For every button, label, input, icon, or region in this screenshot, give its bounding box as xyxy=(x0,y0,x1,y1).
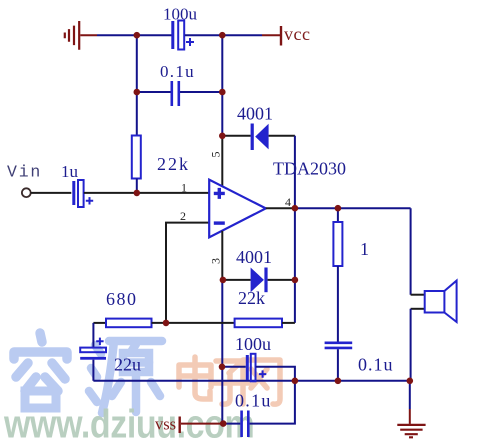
svg-text:0.1u: 0.1u xyxy=(358,355,394,375)
capacitor C3 1u xyxy=(61,162,93,207)
wire R1 bottom to input node xyxy=(136,179,138,193)
wire 680 to node / node to R3 xyxy=(152,322,235,324)
pin number 5 xyxy=(208,152,222,158)
wire GND1 stub (red) xyxy=(80,34,97,36)
svg-text:TDA2030: TDA2030 xyxy=(273,159,346,179)
resistor R1 22k xyxy=(132,136,190,179)
junction top-left xyxy=(134,32,141,39)
watermark 电子网 (pink CJK) xyxy=(179,357,280,404)
wire rail to GND2 xyxy=(409,381,411,409)
svg-text:2: 2 xyxy=(180,209,186,223)
wire vss stub (red) xyxy=(181,423,223,425)
svg-text:0.1u: 0.1u xyxy=(160,62,195,81)
svg-text:3: 3 xyxy=(208,258,222,264)
wire speaker bottom stub xyxy=(411,308,425,310)
wire 680 left stub xyxy=(93,322,106,324)
ground GND2 xyxy=(397,425,425,437)
wire C5 left (x=222 to cap) xyxy=(222,366,246,368)
svg-text:100u: 100u xyxy=(163,5,198,24)
wire pin5 (D1 node to op-amp top) xyxy=(221,136,223,187)
junction rail x410 xyxy=(407,378,414,385)
junction D1 node xyxy=(219,133,226,140)
wire R4 bottom to C7 xyxy=(337,266,339,342)
svg-text:1u: 1u xyxy=(61,162,79,181)
wire pin2 xyxy=(166,223,209,323)
junction vss node xyxy=(220,420,227,427)
ground GND1 top-left xyxy=(65,21,79,50)
label TDA2030 xyxy=(273,159,346,179)
wire R3 right to x=295 xyxy=(282,322,295,324)
capacitor C1 100u xyxy=(163,5,198,50)
junction output node xyxy=(292,205,299,212)
wire output (apex to node 4) xyxy=(266,207,295,209)
terminal input circle xyxy=(22,188,31,197)
resistor R4 1 xyxy=(333,222,369,266)
svg-text:vcc: vcc xyxy=(284,24,310,44)
junction feedback node xyxy=(163,320,170,327)
wire output node to R4/speaker xyxy=(295,207,411,209)
power port VCC xyxy=(280,24,311,46)
wire bottom rail xyxy=(93,380,409,382)
wire D1 right to x=295 xyxy=(269,135,295,137)
wire speaker bottom to rail xyxy=(410,309,412,381)
wire D2 left xyxy=(223,279,251,281)
pin number 2 xyxy=(180,209,186,223)
wire top rail left (gnd to C1) xyxy=(97,34,172,36)
junction top-mid xyxy=(219,32,226,39)
junction C2 left xyxy=(134,89,141,96)
wire vcc stub (red) xyxy=(262,34,280,36)
svg-text:4001: 4001 xyxy=(236,247,272,267)
wire vertical x=222.3 (D2 node to vss rail) xyxy=(221,280,223,424)
svg-text:5: 5 xyxy=(208,152,222,158)
wire D2 right xyxy=(268,279,295,281)
svg-text:22u: 22u xyxy=(114,355,141,375)
op-amp U1 TDA2030 xyxy=(209,180,266,238)
svg-text:1: 1 xyxy=(360,239,369,259)
wire top rail right (C1 to vcc) xyxy=(185,34,262,36)
svg-text:0.1u: 0.1u xyxy=(235,391,272,411)
label Vin xyxy=(7,163,42,182)
wire C3 to op-amp pin1 xyxy=(84,192,209,194)
wire D1 left xyxy=(222,135,250,137)
wire C5 right then down to rail xyxy=(256,367,295,381)
watermark www.dziuu.com (green url) xyxy=(3,401,254,446)
junction C5 left node xyxy=(219,364,226,371)
capacitor C5 100u xyxy=(235,334,271,381)
diode D2 4001 xyxy=(236,247,272,292)
svg-text:vss: vss xyxy=(155,415,176,434)
svg-text:22k: 22k xyxy=(238,288,265,308)
resistor R2 680 xyxy=(106,289,152,327)
junction R4 top node xyxy=(335,205,342,212)
svg-text:22k: 22k xyxy=(157,154,190,174)
svg-text:680: 680 xyxy=(106,289,138,309)
junction rail x295 xyxy=(292,378,299,385)
svg-text:100u: 100u xyxy=(235,334,271,354)
junction D2 right node xyxy=(292,277,299,284)
junction C2 right xyxy=(219,89,226,96)
power port VSS xyxy=(155,415,181,434)
capacitor C7 0.1u zobel xyxy=(325,343,394,375)
wire C6 right then up to rail xyxy=(250,381,295,424)
capacitor C6 0.1u xyxy=(235,391,272,438)
wire vertical x=136.8 (rail to R1 top) xyxy=(136,35,138,135)
svg-text:1: 1 xyxy=(181,181,187,195)
wire GND2 stub (red) xyxy=(409,409,411,424)
pin number 3 xyxy=(208,258,222,264)
watermark 容源 (blue CJK) xyxy=(14,333,162,413)
resistor R3 22k feedback xyxy=(235,288,282,327)
svg-text:4: 4 xyxy=(285,195,291,209)
pin number 1 xyxy=(181,181,187,195)
pin number 4 xyxy=(285,195,291,209)
svg-text:4001: 4001 xyxy=(237,104,273,124)
svg-text:Vin: Vin xyxy=(7,163,42,182)
wire vss node to C6 xyxy=(223,423,240,425)
wire 22u bottom to rail xyxy=(92,360,94,381)
wire speaker top stub xyxy=(411,294,425,296)
junction input node xyxy=(134,190,141,197)
wire C7 bottom to rail xyxy=(337,349,339,381)
speaker LS1 xyxy=(425,281,457,322)
junction D2 left node xyxy=(220,277,227,284)
wire vertical x=294.9 (D1 to feedback) xyxy=(294,136,296,323)
wire speaker top feed xyxy=(410,208,412,295)
capacitor C2 0.1u xyxy=(137,62,223,106)
diode D1 4001 xyxy=(237,104,273,151)
wire R4 top stub xyxy=(337,208,339,222)
junction rail x338 xyxy=(335,378,342,385)
wire pin3 (op-amp bottom to D2 node) xyxy=(221,231,223,280)
wire 22u top (node to cap) xyxy=(92,323,94,348)
wire vertical x=222.3 top (rail to D1 node) xyxy=(221,35,223,136)
wire input to C3 xyxy=(31,192,72,194)
capacitor C4 22u xyxy=(80,338,141,375)
